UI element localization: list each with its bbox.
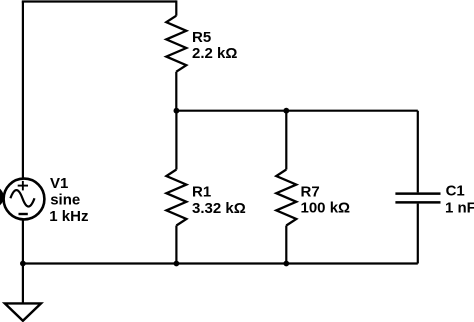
svg-text:2.2 kΩ: 2.2 kΩ	[192, 45, 237, 62]
wire R5 bottom lead	[175, 72, 177, 111]
wire R1 top lead	[175, 111, 177, 170]
svg-text:R1: R1	[192, 184, 211, 201]
node junction R5/R1/middle wire	[174, 108, 180, 114]
node junction R7 bottom	[283, 261, 289, 267]
svg-text:sine: sine	[50, 192, 80, 209]
node junction R7 top	[283, 108, 289, 114]
wire middle horizontal	[176, 110, 417, 112]
wire R7 top lead	[285, 111, 287, 170]
wire C1 top lead	[417, 111, 419, 193]
svg-text:1 nF: 1 nF	[445, 200, 474, 217]
wire top horizontal	[22, 0, 177, 2]
voltage source V1 (sine source circle)	[4, 179, 45, 220]
sine waveform inside V1	[10, 190, 34, 207]
svg-text:R7: R7	[301, 183, 320, 200]
resistor R7	[276, 170, 296, 226]
wire left vertical (top wire to V1 plus terminal)	[22, 2, 24, 178]
svg-text:R5: R5	[192, 29, 211, 46]
cropped dot at left image edge	[0, 186, 4, 208]
ground	[5, 303, 41, 320]
node junction bottom-left	[20, 261, 26, 267]
wire bottom node to ground	[22, 264, 24, 304]
svg-text:100 kΩ: 100 kΩ	[301, 200, 351, 217]
wire V1 minus terminal to bottom node	[22, 220, 24, 263]
node junction R1 bottom	[174, 261, 180, 267]
capacitor C1	[395, 194, 440, 203]
wire bottom horizontal	[23, 262, 418, 264]
svg-text:1 kHz: 1 kHz	[49, 208, 88, 225]
plus polarity mark of V1	[18, 181, 28, 191]
resistor R5	[166, 16, 186, 72]
wire R5 top lead	[175, 0, 177, 15]
minus polarity mark of V1	[19, 213, 28, 215]
wire R7 bottom lead	[285, 226, 287, 264]
wire C1 bottom lead	[417, 204, 419, 264]
wire R1 bottom lead	[175, 226, 177, 264]
svg-text:V1: V1	[50, 175, 68, 192]
svg-text:C1: C1	[446, 183, 465, 200]
svg-text:3.32 kΩ: 3.32 kΩ	[192, 200, 246, 217]
resistor R1	[166, 170, 186, 226]
